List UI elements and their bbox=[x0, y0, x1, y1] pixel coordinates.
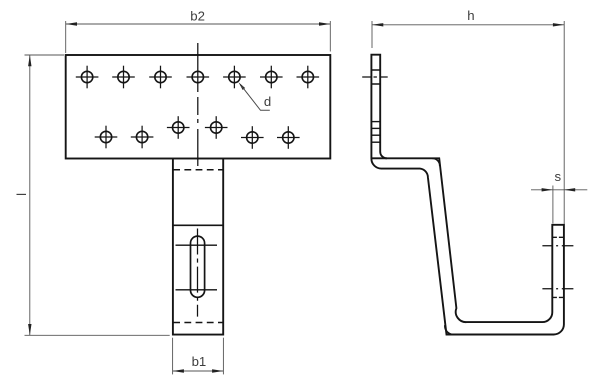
svg-text:b2: b2 bbox=[190, 8, 205, 23]
plate bottom edge seen through strip bbox=[371, 157, 387, 159]
hole A4 top row (on centerline) bbox=[187, 71, 210, 82]
slot upper cross line bbox=[176, 244, 218, 246]
hole B1 bottom row bbox=[95, 126, 118, 149]
hole A5 top row bbox=[223, 66, 246, 89]
hole A7 top row bbox=[297, 66, 320, 89]
part vertical centerline bbox=[197, 43, 199, 166]
leader and label d bbox=[239, 82, 272, 110]
hole B2 bottom row bbox=[131, 126, 154, 149]
right strip cross centerline upper bbox=[542, 245, 573, 247]
svg-text:s: s bbox=[555, 169, 562, 184]
hole A6 top row bbox=[260, 66, 283, 89]
stem step edge line bbox=[173, 224, 223, 226]
strip hole centerline bbox=[362, 76, 388, 78]
front view: stem outline bbox=[173, 159, 223, 335]
strip hole lower edge line bbox=[371, 83, 380, 85]
slot (obround hole) in stem bbox=[191, 236, 205, 297]
hole B6 bottom row bbox=[277, 126, 300, 149]
slot lower cross line bbox=[176, 289, 218, 291]
hole B4 raised bottom row bbox=[205, 116, 228, 139]
front view: plate outline bbox=[66, 55, 331, 159]
slot vertical centerline bbox=[197, 229, 199, 317]
bend line (dashed) at stem top bbox=[173, 169, 223, 171]
strip tick line 2 bbox=[371, 127, 380, 129]
svg-text:h: h bbox=[467, 8, 474, 23]
right strip cross centerline lower bbox=[542, 288, 573, 290]
strip tick line 4 bbox=[371, 141, 380, 143]
svg-text:d: d bbox=[264, 94, 271, 109]
bend line (dashed) at stem bottom bbox=[173, 322, 223, 324]
strip tick line 1 bbox=[371, 121, 380, 123]
dimension b2 bbox=[66, 8, 331, 53]
dimension h bbox=[372, 8, 564, 224]
strip tick line 3 bbox=[371, 134, 380, 136]
right strip slot end line lower (hidden, dashed) bbox=[552, 296, 564, 298]
hole B5 bottom row bbox=[241, 126, 264, 149]
right strip slot end line upper (hidden, dashed) bbox=[552, 236, 564, 238]
hole A2 top row bbox=[112, 66, 135, 89]
hole A1 top row bbox=[76, 66, 99, 89]
bend tangent arc at lower left corner bbox=[445, 325, 453, 334]
dimension l bbox=[14, 55, 170, 335]
svg-text:l: l bbox=[14, 193, 29, 196]
svg-text:b1: b1 bbox=[192, 354, 207, 369]
dimension b1 bbox=[173, 338, 224, 375]
hole B3 raised bottom row bbox=[167, 116, 190, 139]
strip hole upper edge line bbox=[371, 69, 380, 71]
bend tangent arc at upper right corner bbox=[432, 158, 440, 166]
side view: hook profile outline bbox=[371, 55, 564, 335]
dimension s bbox=[531, 169, 587, 224]
hole A3 top row bbox=[149, 66, 172, 89]
